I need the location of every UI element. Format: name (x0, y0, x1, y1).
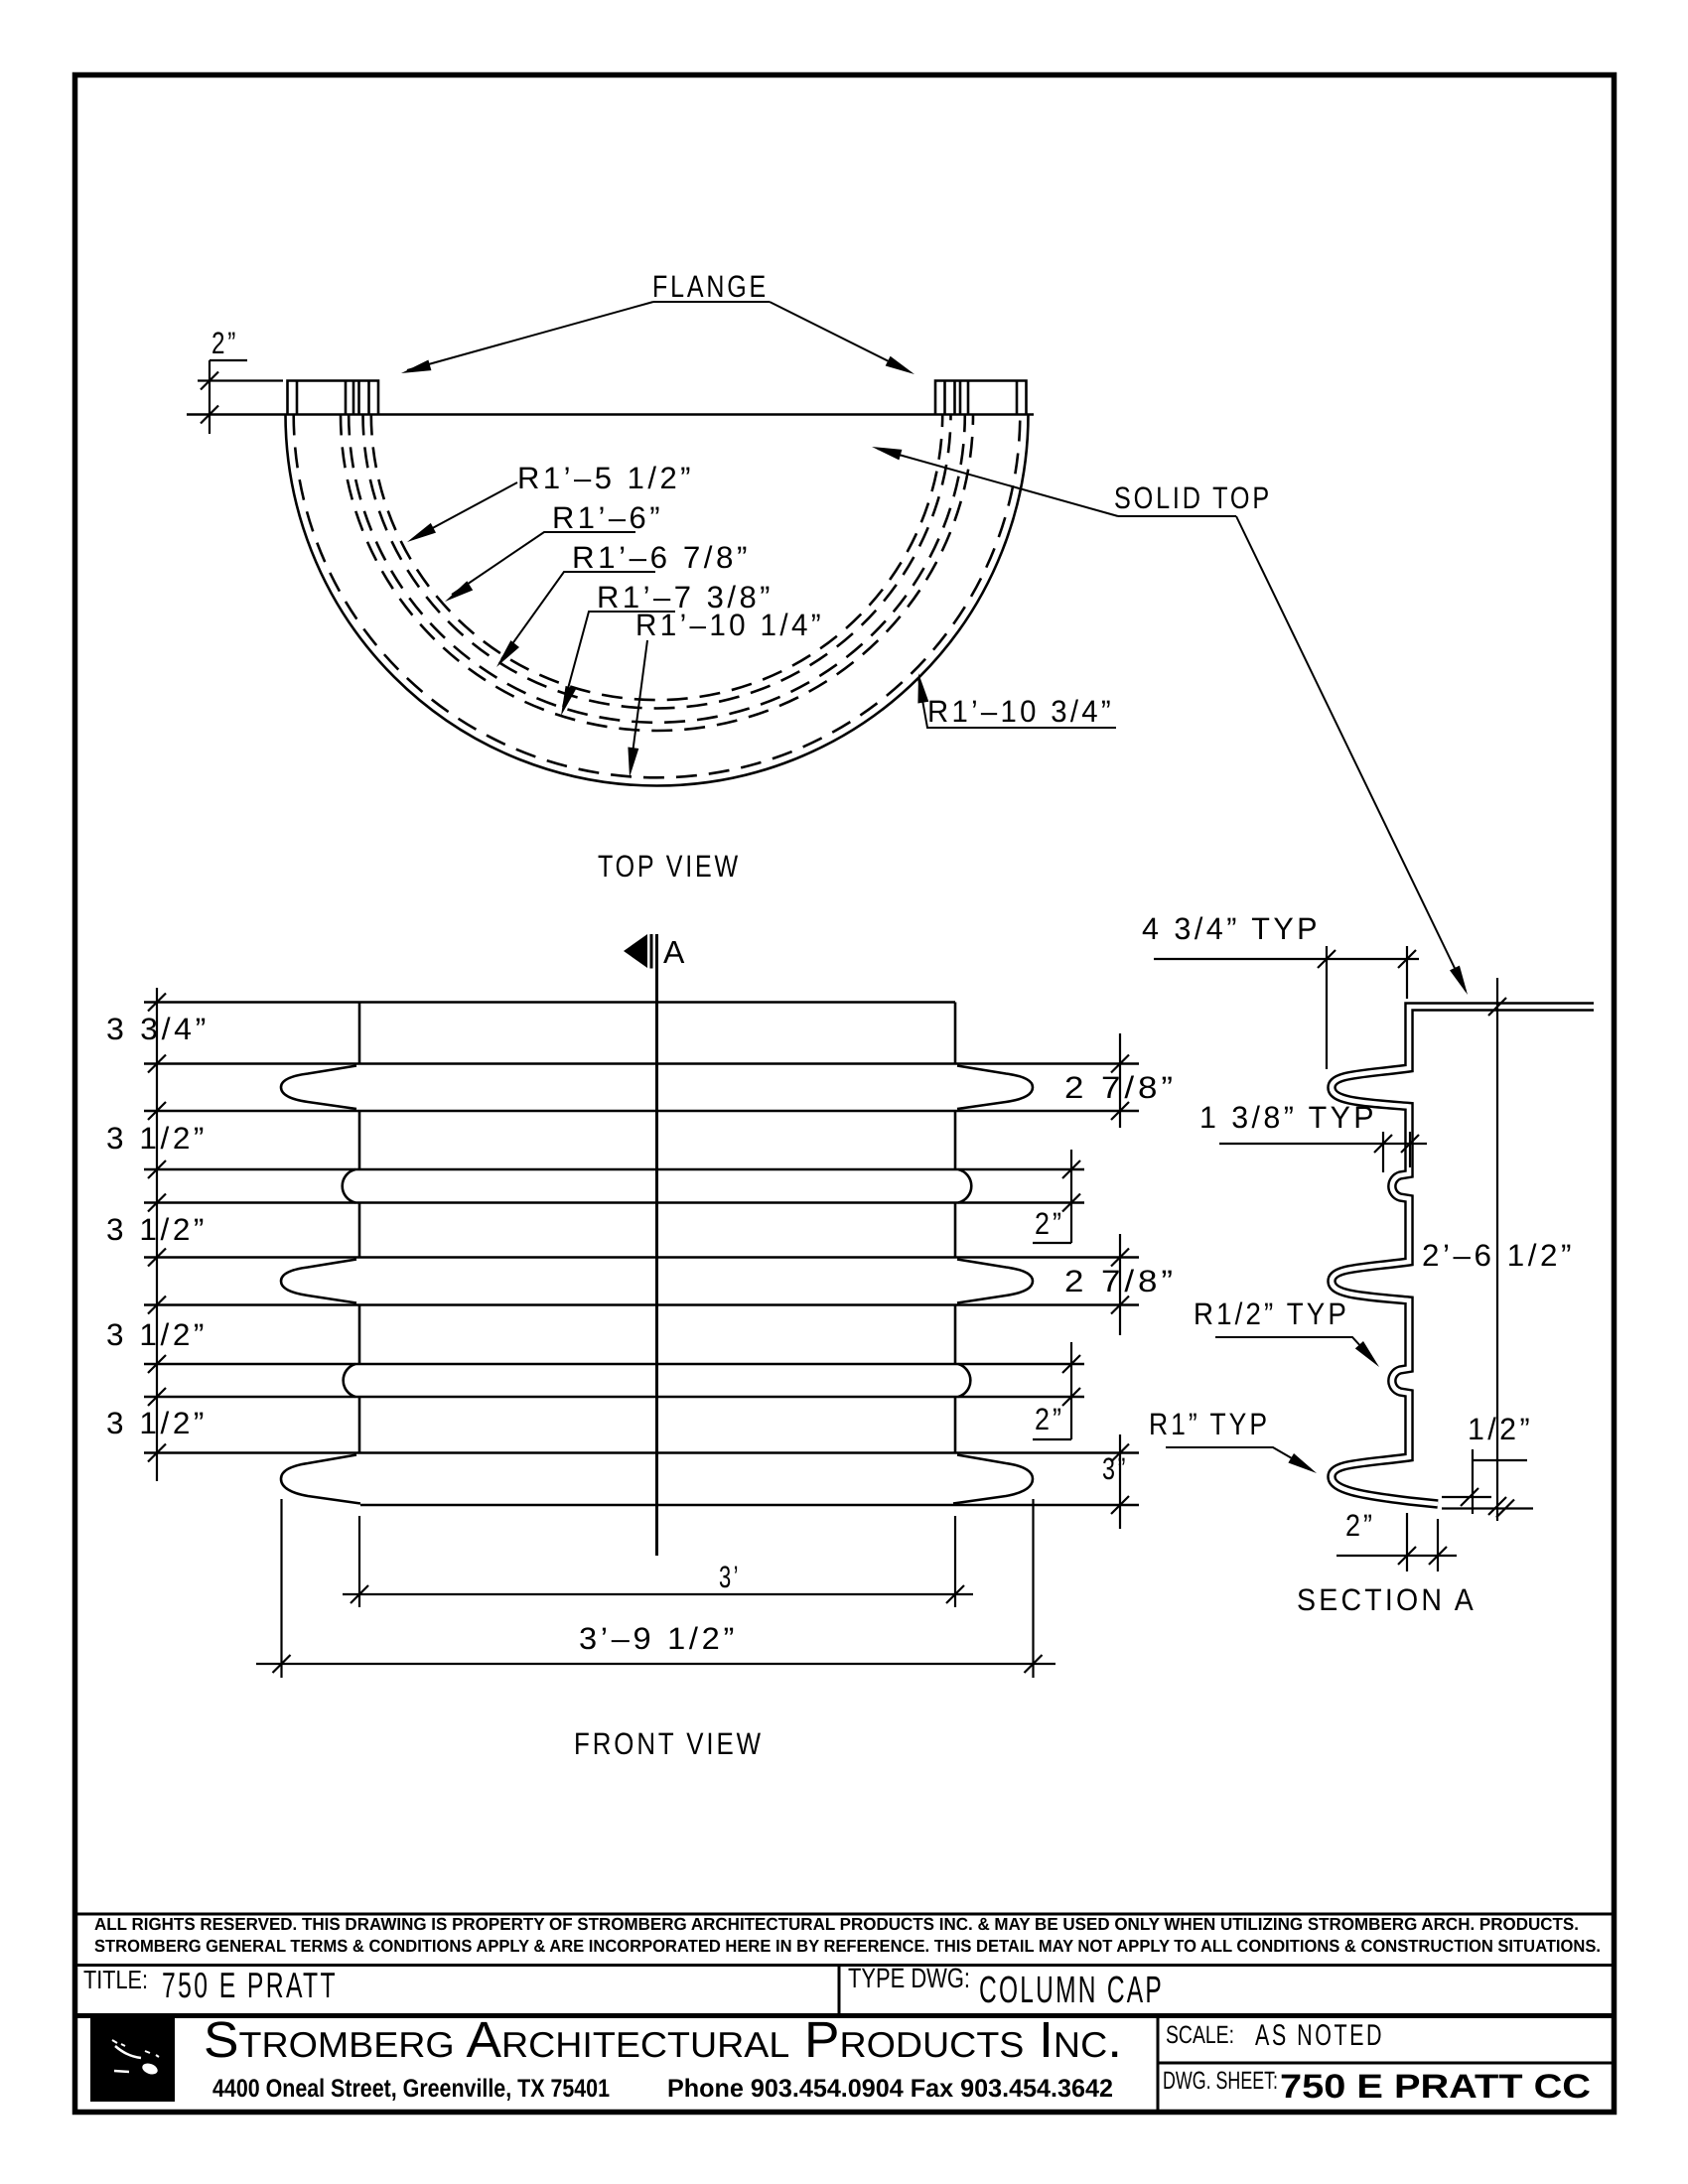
right dim 3" (ring5) (1111, 1434, 1129, 1529)
svg-text:FRONT VIEW: FRONT VIEW (574, 1726, 764, 1761)
dim 2'-6 1/2" (1488, 978, 1506, 1521)
svg-text:2”: 2” (1035, 1402, 1064, 1436)
bottom dim 3'-9 1/2" (256, 1499, 1055, 1678)
dim 2" (bottom tail) (1336, 1513, 1457, 1571)
svg-text:DWG. SHEET:: DWG. SHEET: (1163, 2067, 1278, 2095)
ring 3 right nose (957, 1260, 1033, 1303)
svg-text:4400 Oneal Street, Greenville,: 4400 Oneal Street, Greenville, TX 75401 (212, 2075, 610, 2103)
ring 2 left cap (343, 1169, 355, 1203)
right dim 2" (ring2) (1033, 1150, 1080, 1243)
right flange (935, 381, 1027, 415)
dashed arc R1'-7 3/8" (341, 415, 973, 732)
svg-text:TOP VIEW: TOP VIEW (598, 849, 741, 884)
ring 4 right cap (958, 1364, 970, 1397)
ring 5 right nose (953, 1455, 1033, 1504)
ring 4 left cap (344, 1364, 355, 1397)
dashed arc R1'-10 1/4" (294, 415, 1021, 778)
svg-text:R1’–5 1/2”: R1’–5 1/2” (517, 461, 694, 495)
dashed arc R1'-6 7/8" (349, 415, 965, 723)
svg-text:750 E PRATT: 750 E PRATT (162, 1965, 338, 2005)
right dim 2 7/8" (ring3) (1111, 1234, 1129, 1335)
svg-text:4 3/4” TYP: 4 3/4” TYP (1142, 911, 1321, 946)
body top edge (144, 1001, 955, 1004)
svg-text:R1” TYP: R1” TYP (1149, 1407, 1270, 1441)
svg-text:R1’–6”: R1’–6” (552, 500, 663, 535)
title row top line (76, 1964, 1614, 1967)
dim 4 3/4" TYP (1154, 946, 1419, 1069)
svg-text:A: A (663, 934, 685, 970)
dim 1 3/8" TYP (1219, 1132, 1427, 1172)
diameter line (187, 413, 1034, 416)
body right edge segments (954, 1003, 957, 1453)
right dim 2" (ring4) (1033, 1342, 1080, 1439)
svg-text:SOLID TOP: SOLID TOP (1114, 480, 1272, 515)
bottom dim 3' (343, 1516, 973, 1607)
svg-text:1 3/8” TYP: 1 3/8” TYP (1199, 1100, 1377, 1135)
dim 1/2" (1442, 1449, 1533, 1518)
right dim 2 7/8" (ring1) (1111, 1033, 1129, 1128)
svg-text:Stromberg Architectural Produc: Stromberg Architectural Products Inc. (204, 2011, 1122, 2068)
ring 3 (2 7/8") top and bottom lines (144, 1256, 1139, 1259)
centerline (655, 934, 658, 1556)
section cut marker A (624, 934, 647, 968)
ring 1 (2 7/8") top and bottom lines (144, 1062, 1139, 1065)
svg-text:TITLE:: TITLE: (83, 1965, 148, 1994)
ring 2 (2") top and bottom lines (144, 1168, 1084, 1171)
logo (90, 2017, 175, 2102)
left flange (288, 381, 379, 415)
svg-text:2 7/8”: 2 7/8” (1064, 1264, 1177, 1298)
svg-text:3 1/2”: 3 1/2” (106, 1212, 208, 1247)
svg-text:FLANGE: FLANGE (652, 269, 769, 304)
legal box top line (76, 1913, 1614, 1916)
svg-text:750 E PRATT CC: 750 E PRATT CC (1280, 2068, 1591, 2106)
svg-text:3’–9 1/2”: 3’–9 1/2” (579, 1621, 738, 1656)
svg-text:2 7/8”: 2 7/8” (1064, 1070, 1177, 1105)
ring 1 right nose (957, 1066, 1033, 1110)
svg-text:3 3/4”: 3 3/4” (106, 1012, 210, 1046)
ring 2 right cap (958, 1169, 971, 1203)
svg-text:2”: 2” (1345, 1508, 1375, 1543)
svg-text:3”: 3” (1102, 1451, 1128, 1486)
svg-text:2”: 2” (211, 326, 238, 360)
section profile shell (double line) (1332, 1007, 1594, 1504)
svg-text:Phone 903.454.0904 Fax 903.4: Phone 903.454.0904 Fax 903.454.3642 (667, 2075, 1113, 2103)
svg-text:R1’–10 1/4”: R1’–10 1/4” (635, 608, 824, 642)
svg-text:3 1/2”: 3 1/2” (106, 1406, 208, 1440)
ring 3 left nose (281, 1260, 356, 1303)
svg-text:SCALE:: SCALE: (1166, 2021, 1234, 2049)
right column divider (1157, 2016, 1160, 2112)
ring 1 left nose (281, 1066, 356, 1110)
ring 5 bottom line (360, 1504, 1139, 1507)
body left edge segments (358, 1003, 361, 1453)
svg-text:3’: 3’ (719, 1560, 741, 1594)
ring 5 left nose (281, 1455, 360, 1504)
svg-text:3 1/2”: 3 1/2” (106, 1317, 208, 1352)
svg-text:3 1/2”: 3 1/2” (106, 1121, 208, 1156)
svg-text:R1/2” TYP: R1/2” TYP (1194, 1297, 1349, 1331)
svg-text:R1’–10 3/4”: R1’–10 3/4” (927, 694, 1114, 729)
left dimension stack line (148, 988, 166, 1481)
svg-text:2’–6 1/2”: 2’–6 1/2” (1422, 1238, 1575, 1273)
ring 5 (3") top line (144, 1451, 1139, 1454)
svg-text:SECTION A: SECTION A (1297, 1582, 1477, 1617)
svg-text:ALL RIGHTS RESERVED. THIS DRAW: ALL RIGHTS RESERVED. THIS DRAWING IS PRO… (94, 1914, 1579, 1934)
svg-text:R1’–6 7/8”: R1’–6 7/8” (572, 540, 751, 575)
svg-text:COLUMN CAP: COLUMN CAP (979, 1970, 1164, 2011)
ring 4 (2") top and bottom lines (144, 1363, 1084, 1366)
svg-text:STROMBERG GENERAL TERMS & COND: STROMBERG GENERAL TERMS & CONDITIONS APP… (94, 1936, 1601, 1956)
divider (838, 1966, 841, 2015)
svg-text:TYPE DWG:: TYPE DWG: (848, 1963, 970, 1993)
company band top line (76, 2013, 1614, 2018)
dashed arc R1'-5 1/2" (371, 415, 942, 701)
outer solid arc R1'-10 3/4" (286, 415, 1029, 786)
svg-text:2”: 2” (1035, 1206, 1064, 1241)
svg-text:AS NOTED: AS NOTED (1255, 2019, 1384, 2052)
svg-text:1/2”: 1/2” (1468, 1412, 1533, 1446)
dashed arc R1'-6" (363, 415, 951, 709)
dimension 2" (flange height) (198, 360, 283, 434)
